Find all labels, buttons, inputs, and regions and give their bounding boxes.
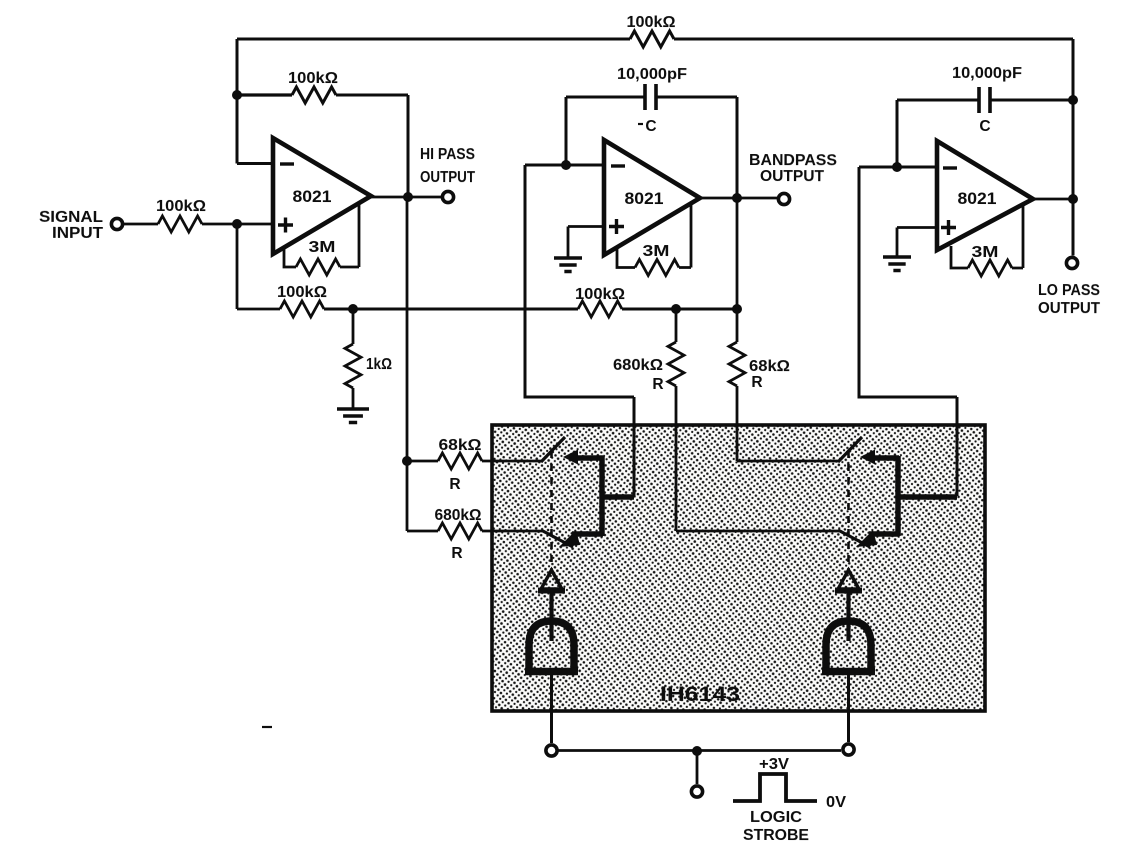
- ground G2: [554, 258, 582, 272]
- svg-text:10,000pF: 10,000pF: [617, 66, 687, 83]
- switch S2 upper throw arrow: [860, 450, 875, 465]
- svg-text:R: R: [451, 545, 462, 562]
- svg-text:100kΩ: 100kΩ: [575, 286, 625, 303]
- terminal LO PASS OUTPUT: [1066, 257, 1077, 268]
- switch S1 lower throw arrow: [559, 530, 580, 547]
- svg-text:C: C: [979, 118, 990, 135]
- svg-text:OUTPUT: OUTPUT: [420, 169, 476, 186]
- node 680k tap: [671, 304, 681, 314]
- switch S2 lower throw arrow: [856, 530, 877, 547]
- wire top feedback right segment: [674, 38, 1073, 41]
- svg-text:100kΩ: 100kΩ: [288, 70, 338, 87]
- terminal strobe: [691, 786, 702, 797]
- svg-text:8021: 8021: [957, 190, 996, 208]
- wire S2 control pin down: [847, 675, 850, 742]
- node A2 inverting input: [561, 160, 571, 170]
- ground G1: [337, 409, 369, 423]
- svg-text:1kΩ: 1kΩ: [366, 356, 392, 373]
- resistor 1k to ground: [352, 309, 355, 344]
- wire A3 R-input column down and over to switch 2 common: [859, 167, 957, 426]
- label IH6143: [660, 683, 740, 706]
- wire S1 common branch to A2: [602, 494, 634, 500]
- wire A3 + input to ground: [897, 228, 936, 257]
- ground G3: [883, 257, 911, 271]
- svg-text:680kΩ: 680kΩ: [434, 507, 481, 524]
- op-amp U2 8021: [604, 140, 700, 255]
- svg-text:SIGNAL: SIGNAL: [39, 209, 103, 226]
- capacitor C2 10000pF: [566, 96, 645, 99]
- wire A2 inverting input: [525, 164, 603, 167]
- buffer arrow S2: [838, 570, 859, 589]
- svg-text:R: R: [449, 476, 460, 493]
- svg-text:100kΩ: 100kΩ: [626, 14, 675, 31]
- svg-text:3M: 3M: [642, 243, 669, 260]
- gate driver S1: [529, 621, 574, 674]
- resistor 3M A2: [617, 247, 635, 268]
- resistor 680k R middle: [675, 309, 678, 342]
- svg-text:680kΩ: 680kΩ: [613, 357, 663, 374]
- wire top feedback left segment: [237, 38, 630, 41]
- switch S2 blade lower: [838, 530, 870, 547]
- terminal BANDPASS OUTPUT: [778, 193, 789, 204]
- node hi-pass column / 68k: [402, 456, 412, 466]
- svg-text:HI PASS: HI PASS: [420, 146, 475, 163]
- resistor 68k R middle: [736, 309, 739, 342]
- wire A1 inverting input: [237, 162, 272, 165]
- svg-text:INPUT: INPUT: [52, 225, 104, 242]
- wire C3 left leg down: [896, 100, 899, 167]
- svg-text:100kΩ: 100kΩ: [277, 284, 327, 301]
- wire A2 + input to ground: [568, 227, 603, 258]
- wire + input column down: [236, 224, 239, 309]
- node signal/+ input junction: [232, 219, 242, 229]
- svg-text:3M: 3M: [308, 239, 335, 256]
- svg-text:R: R: [652, 376, 663, 393]
- logic strobe waveform: [759, 756, 790, 773]
- wire 680k into box to S2 lower input: [676, 424, 839, 531]
- capacitor C3 10000pF: [897, 99, 979, 102]
- switch S1 upper throw arrow: [563, 450, 578, 465]
- op-amp U1 8021: [273, 138, 371, 254]
- svg-text:IH6143: IH6143: [660, 683, 740, 706]
- wire S2 common up to A3 inside box: [956, 424, 959, 496]
- svg-text:R: R: [751, 374, 762, 391]
- resistor 100k top feedback: [630, 31, 674, 47]
- terminal HI PASS OUTPUT: [442, 191, 453, 202]
- wire strobe bus: [558, 749, 841, 752]
- node 1k tap: [348, 304, 358, 314]
- svg-text:LO PASS: LO PASS: [1038, 282, 1100, 299]
- op-amp U3 8021: [937, 141, 1033, 250]
- switch S2 common bar: [895, 456, 901, 536]
- svg-text:68kΩ: 68kΩ: [438, 437, 481, 454]
- svg-text:LOGIC: LOGIC: [750, 809, 802, 826]
- node A1 feedback top-left: [236, 39, 239, 164]
- resistor 100k bottom-middle: [578, 301, 622, 317]
- node strobe tap: [692, 746, 702, 756]
- svg-text:10,000pF: 10,000pF: [952, 65, 1022, 82]
- terminal S2 control: [843, 744, 854, 755]
- svg-text:100kΩ: 100kΩ: [156, 198, 206, 215]
- resistor 100k A1 feedback: [237, 93, 292, 96]
- node C3 right at column: [1068, 95, 1078, 105]
- wire S1 control pin down: [550, 675, 553, 743]
- wire C2 left leg down to inverting node: [565, 97, 568, 165]
- switch S1 blade upper: [541, 437, 565, 462]
- control dashed S2: [847, 451, 850, 570]
- switch S1 blade lower: [541, 530, 573, 547]
- resistor 680k R switch1 input: [407, 530, 438, 533]
- wire A1 output: [371, 196, 441, 199]
- wire S1 common up to A2 inside box: [633, 424, 636, 497]
- IC U4 IH6143 body: [492, 425, 985, 711]
- wire strobe stub: [696, 751, 699, 784]
- svg-text:BANDPASS: BANDPASS: [749, 152, 837, 169]
- gate driver S2: [826, 621, 871, 674]
- wire A2 R-input column down and over to switch common: [525, 165, 634, 426]
- wire bandpass column down to 68k: [736, 198, 739, 309]
- svg-text:OUTPUT: OUTPUT: [1038, 300, 1101, 317]
- resistor 100k signal input: [124, 223, 158, 226]
- terminal SIGNAL INPUT: [111, 218, 122, 229]
- stray mark: [262, 726, 272, 728]
- wire HI PASS column down to switch resistors: [406, 197, 409, 531]
- wire A3 inverting input: [859, 166, 936, 169]
- svg-text:OUTPUT: OUTPUT: [760, 168, 825, 185]
- svg-text:8021: 8021: [624, 190, 663, 208]
- node A3 inverting input: [892, 162, 902, 172]
- wire A1 feedback down to output: [407, 95, 410, 197]
- resistor 3M A3: [951, 246, 968, 268]
- switch S1 common bar: [599, 456, 605, 536]
- buffer arrow S1: [541, 570, 562, 589]
- terminal S1 control: [546, 745, 557, 756]
- node 68k tap / bandpass column: [732, 304, 742, 314]
- switch S2 blade upper: [838, 437, 862, 462]
- svg-text:0V: 0V: [826, 794, 847, 811]
- wire right column down to LP cap node: [1072, 39, 1075, 256]
- resistor 100k bottom-left: [237, 308, 280, 311]
- svg-text:STROBE: STROBE: [743, 827, 809, 844]
- svg-text:68kΩ: 68kΩ: [749, 358, 790, 375]
- tick near C label: [638, 123, 643, 125]
- svg-text:3M: 3M: [971, 244, 998, 261]
- wire A2 output: [700, 197, 777, 200]
- control dashed S1: [550, 451, 553, 570]
- resistor 68k R switch1 input: [407, 460, 438, 463]
- wire S2 common branch to A3: [898, 494, 957, 500]
- wire 68k into box to S2 upper input: [737, 424, 839, 461]
- resistor 3M A1: [284, 247, 296, 267]
- wire C2 right leg down to output: [736, 97, 739, 198]
- svg-text:+3V: +3V: [759, 756, 790, 773]
- wire A3 output: [1033, 198, 1073, 201]
- svg-text:8021: 8021: [292, 188, 331, 206]
- svg-text:C: C: [645, 118, 656, 135]
